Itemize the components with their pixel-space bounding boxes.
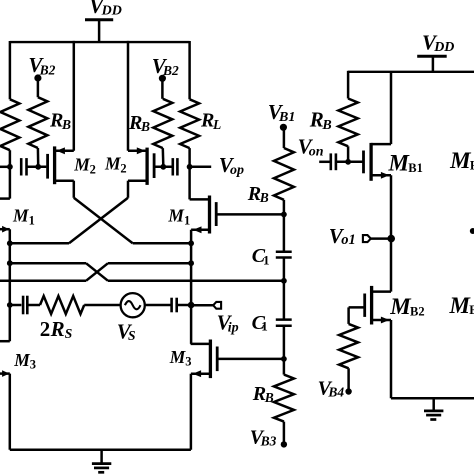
wire MB1 source down [390, 175, 393, 291]
node M3-gate (dot) [281, 356, 287, 362]
label RL [200, 110, 221, 132]
node gate left M2 (dot) [35, 164, 41, 170]
wire VDD rail (left) [10, 41, 190, 43]
node source row right (dot) [188, 302, 195, 309]
node cross right (dot) [188, 240, 194, 246]
wire gate-cross line2 right [108, 262, 191, 265]
wire VDD drop to M2 right [127, 41, 130, 151]
svg-text:B: B [321, 118, 331, 133]
source VS (sine source circle) [121, 293, 145, 317]
wire 2RS to VS [84, 304, 121, 307]
transistor MB1 drain lead [371, 143, 391, 146]
transistor M3 left source lead + arrow [0, 370, 10, 377]
label MB1 [388, 150, 423, 175]
svg-text:1: 1 [29, 213, 35, 227]
wire VS to cap [145, 304, 172, 307]
svg-text:M: M [169, 347, 187, 367]
power VDD (right) supply bar [417, 55, 447, 58]
wire left down to ground rail [9, 374, 12, 450]
wire left-edge output stub [0, 166, 10, 169]
label RB (left) [49, 110, 71, 132]
wire Vo1 port to node [371, 237, 391, 240]
transistor M2 left gate bar [46, 154, 49, 179]
transistor M1 right source lead + arrow [191, 226, 209, 233]
wire MB2 source down [390, 320, 393, 398]
label VB2 (right) [152, 54, 179, 78]
transistor M2 left source lead + arrow [55, 147, 74, 154]
svg-text:B: B [264, 390, 274, 405]
wire Von to cap [319, 161, 331, 164]
resistor RB (bottom, to VB3) [274, 359, 294, 442]
svg-text:B2: B2 [39, 62, 56, 77]
svg-text:M: M [104, 154, 122, 174]
wire VDD rail (right) [348, 71, 474, 73]
svg-text:2: 2 [120, 161, 126, 175]
svg-text:o1: o1 [341, 232, 356, 248]
terminal VB3 (dot) [281, 441, 287, 447]
label M2 (right) [104, 154, 127, 176]
svg-text:2: 2 [90, 162, 96, 176]
label VS [117, 319, 136, 343]
transistor MB1 source lead + arrow [371, 172, 391, 179]
wire gate net left M2 [27, 166, 47, 169]
svg-text:M: M [389, 294, 412, 319]
label RB (right ckt) [309, 108, 332, 133]
svg-text:M: M [388, 150, 411, 175]
svg-text:1: 1 [261, 319, 268, 334]
ground symbol (left ckt) [92, 450, 111, 473]
label Vop [219, 153, 244, 178]
wire ground rail (right ckt) [391, 397, 474, 400]
resistor R load (left branch) [0, 41, 19, 167]
wire MB2 gate lead [349, 306, 365, 309]
label 2RS [40, 317, 73, 341]
transistor M2 left drain lead [55, 179, 74, 182]
svg-text:B1: B1 [278, 110, 295, 125]
capacitor Von coupling [331, 153, 336, 170]
wire C1 upper to mid node [283, 258, 286, 281]
wire mid node to C1 lower [283, 281, 286, 320]
svg-text:M: M [167, 206, 185, 226]
svg-text:R: R [50, 317, 65, 341]
capacitor gate-coupling right [173, 158, 178, 175]
wire source row left stub [10, 304, 22, 307]
svg-text:M: M [73, 155, 91, 175]
node Vo2 (clipped dot) [470, 228, 474, 234]
wire VDD drop to M2 left [73, 41, 76, 151]
power VDD (right) label [422, 30, 454, 55]
svg-text:B1: B1 [408, 161, 423, 175]
port Vo1 (pentagon) [363, 235, 371, 242]
wire cap to source node right [177, 304, 191, 307]
label Vo1 [329, 224, 356, 248]
transistor M3 right gate bar [216, 347, 219, 372]
label VB1 [268, 100, 296, 125]
svg-text:B3: B3 [260, 433, 277, 448]
resistor bias (VB4) [339, 307, 358, 388]
wire C1 lower to M3-gate node [283, 326, 286, 359]
label M2 (left) [73, 155, 96, 177]
transistor M2 right gate bar [153, 153, 156, 178]
capacitor source coupling left [23, 296, 27, 315]
transistor M1 right channel bar [208, 196, 211, 234]
label VB2 (left) [28, 53, 55, 77]
port Vip (pentagon) [213, 302, 221, 309]
resistor RB (under VB1) [274, 127, 294, 214]
transistor MB1 gate bar [362, 151, 365, 174]
wire M3 right gate to C1 column [217, 358, 284, 361]
svg-text:B: B [61, 117, 71, 132]
svg-text:M: M [13, 350, 31, 370]
wire gate-cross line2 left edge [0, 280, 86, 283]
capacitor source coupling right [172, 298, 177, 313]
resistor RB (right ckt) [338, 71, 357, 162]
terminal VB4 (dot) [345, 388, 351, 394]
power VDD (left) supply bar [85, 18, 113, 21]
transistor M1 right drain stub [188, 167, 191, 200]
transistor M2 right drain lead [128, 179, 147, 182]
wire cross-couple horizontal left [10, 242, 69, 245]
capacitor C1 lower [276, 320, 292, 326]
transistor M3 right channel bar [209, 340, 212, 379]
wire gate-cross diag down [86, 263, 108, 281]
node gate right M2 (dot) [160, 164, 166, 170]
label MB2 [389, 294, 424, 319]
wire source bus right [190, 230, 193, 344]
svg-text:B2: B2 [410, 304, 425, 318]
capacitor gate-coupling left [21, 158, 26, 175]
wire MB1 drain to rail [390, 72, 393, 144]
transistor M2 right channel bar [145, 148, 148, 185]
svg-text:DD: DD [433, 40, 454, 55]
wire cap to 2RS [27, 304, 40, 307]
wire right down to ground rail [190, 374, 193, 450]
transistor M1 left source lead + arrow [0, 226, 10, 233]
wire M2 right source drop [127, 181, 130, 198]
svg-text:B: B [140, 119, 150, 134]
label VB3 [250, 426, 277, 448]
svg-text:B: B [259, 190, 269, 205]
wire cross-couple horizontal right [133, 242, 191, 245]
transistor M3 right source lead + arrow [191, 370, 211, 377]
svg-text:2: 2 [40, 317, 51, 341]
transistor M2 left channel bar [53, 146, 56, 184]
wire cross-couple diagonal right-to-left [69, 198, 128, 244]
svg-text:3: 3 [185, 355, 191, 369]
svg-text:DD: DD [101, 4, 122, 19]
resistor 2RS [40, 296, 84, 314]
terminal VB1 (dot) [280, 124, 287, 131]
wire M1 right gate to C1 column [216, 213, 284, 216]
transistor MB2 channel bar [370, 286, 373, 325]
transistor MB1 channel bar [369, 143, 372, 181]
svg-text:on: on [309, 145, 324, 160]
wire to Vip port [191, 304, 213, 307]
capacitor C1 upper [276, 252, 292, 258]
node output left (junction dot) [7, 164, 13, 170]
label MB (clipped, edge top) [449, 148, 474, 173]
label M3 (right) [169, 347, 192, 369]
ground symbol (right ckt) [424, 398, 443, 419]
svg-text:S: S [65, 326, 73, 341]
node output Vop (junction dot) [187, 164, 193, 170]
transistor M3 left drain stub [0, 340, 10, 343]
label M3 (left) [13, 350, 36, 372]
wire gate-cross line1 left [10, 262, 86, 265]
transistor M1 right gate bar [215, 202, 218, 226]
power VDD (left) label [89, 0, 122, 19]
wire ground rail (left ckt) [10, 449, 191, 452]
transistor M2 right source lead + arrow [128, 147, 147, 154]
svg-text:B1: B1 [470, 159, 474, 173]
wire gate-cross line1 right to C1 [108, 280, 284, 283]
resistor RB (left VB2) [28, 81, 47, 166]
transistor MB2 source lead + arrow [372, 317, 391, 324]
label Von [298, 134, 324, 159]
node line2 right (dot) [188, 260, 194, 266]
svg-text:1: 1 [263, 253, 270, 268]
terminal VB2 left (dot) [34, 74, 41, 81]
transistor MB2 drain lead [372, 290, 391, 293]
wire output to Vop [190, 166, 212, 169]
node source row left (dot) [7, 302, 13, 308]
svg-text:1: 1 [184, 213, 190, 227]
transistor MB2 gate bar [363, 294, 366, 317]
resistor RB (right VB2) [153, 81, 172, 166]
wire VDD stem (left) [98, 20, 101, 42]
label C1 (lower) [252, 312, 268, 334]
wire M2 left source drop [73, 181, 76, 198]
svg-text:ip: ip [228, 320, 239, 335]
resistor RL (right load) [180, 41, 199, 167]
node Vo1 (dot) [387, 235, 395, 243]
wire source bus left [9, 229, 12, 341]
label Vip [217, 310, 239, 335]
wire cross-couple diagonal left-to-right [74, 198, 133, 244]
svg-text:L: L [212, 117, 221, 132]
label VB4 [318, 377, 345, 399]
svg-text:op: op [230, 163, 244, 178]
svg-text:M: M [449, 293, 472, 318]
node mid (dot) [281, 278, 287, 284]
wire cap to MB1 gate [336, 161, 364, 164]
transistor M3 right drain lead [191, 343, 211, 346]
wire to C1 upper [283, 214, 286, 251]
svg-text:B2: B2 [469, 303, 474, 317]
wire VDD stem (right) [432, 56, 435, 72]
node MB1 gate (dot) [345, 159, 351, 165]
node line1 left (dot) [7, 260, 13, 266]
label M1 (right) [167, 206, 190, 228]
transistor M1 right drain lead [190, 198, 210, 201]
transistor M1 left drain stub [0, 167, 10, 199]
svg-text:B4: B4 [327, 385, 344, 400]
label MB (clipped, edge bottom) [449, 293, 474, 318]
terminal VB2 right (dot) [159, 75, 166, 82]
label RB (C1 column upper) [247, 183, 269, 205]
svg-text:M: M [449, 148, 472, 173]
wire gate net right M2 [155, 166, 172, 169]
wire gate-cross diag up [86, 263, 108, 281]
svg-text:M: M [12, 206, 30, 226]
label C1 (upper) [252, 245, 270, 267]
svg-text:S: S [128, 328, 136, 343]
label RB (bottom) [252, 383, 274, 405]
node cross left (dot) [7, 240, 13, 246]
node RB/M1-gate (dot) [281, 212, 287, 218]
label RB (right of left ckt) [128, 112, 150, 134]
label M1 (left) [12, 206, 35, 228]
svg-text:3: 3 [30, 358, 36, 372]
